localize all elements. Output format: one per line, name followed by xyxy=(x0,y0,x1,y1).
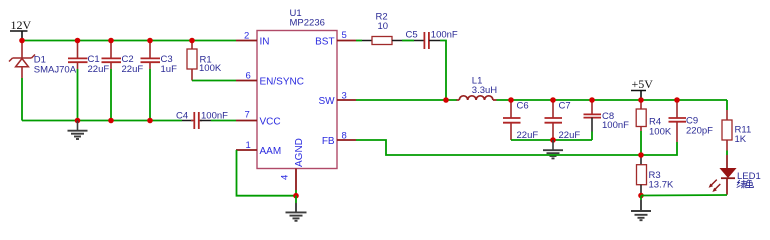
svg-text:C5: C5 xyxy=(406,30,418,41)
pin 6 EN/SYNC xyxy=(236,71,304,88)
svg-text:BST: BST xyxy=(315,36,334,47)
wire EN/SYNC xyxy=(192,80,236,82)
wire rail down to R11 xyxy=(726,100,728,110)
resistor R3 xyxy=(637,155,674,196)
svg-text:100K: 100K xyxy=(199,63,222,74)
svg-text:IN: IN xyxy=(260,36,270,47)
wire bottom-left rail xyxy=(22,120,182,122)
svg-text:VCC: VCC xyxy=(260,116,281,127)
junction AGND xyxy=(293,193,299,199)
svg-text:100nF: 100nF xyxy=(431,30,458,41)
svg-text:EN/SYNC: EN/SYNC xyxy=(260,76,304,87)
svg-text:C6: C6 xyxy=(517,101,529,112)
wire C5 down to SW xyxy=(440,41,446,101)
svg-text:C7: C7 xyxy=(559,101,571,112)
junction C7 bottom xyxy=(550,137,556,143)
svg-text:8: 8 xyxy=(342,130,347,141)
wire BST to R2 xyxy=(356,40,362,42)
svg-text:1K: 1K xyxy=(735,134,747,145)
capacitor C6 xyxy=(503,100,538,141)
wire R4 down xyxy=(640,131,642,155)
LED LED1 xyxy=(709,155,761,195)
resistor R1 xyxy=(187,41,222,81)
svg-text:10: 10 xyxy=(378,21,389,32)
power port +5V xyxy=(631,77,653,100)
svg-text:22uF: 22uF xyxy=(122,64,144,75)
capacitor C7 xyxy=(545,100,581,141)
junction FB-R4 xyxy=(638,152,644,158)
svg-text:2: 2 xyxy=(244,31,249,42)
wire output rail xyxy=(497,99,728,101)
capacitor C5 xyxy=(406,30,458,49)
wire LED bottom to R3 junction xyxy=(641,194,727,197)
op-amp U1 MP2236 IC body xyxy=(257,8,337,169)
svg-text:SMAJ70A: SMAJ70A xyxy=(34,64,77,75)
wire SW rail xyxy=(356,99,457,101)
svg-text:13.7K: 13.7K xyxy=(649,180,674,191)
svg-text:22uF: 22uF xyxy=(88,64,110,75)
svg-text:220pF: 220pF xyxy=(686,126,713,137)
junction R3 bottom xyxy=(638,193,644,199)
svg-text:7: 7 xyxy=(245,110,250,121)
pin 3 SW xyxy=(318,91,356,107)
wire C8 down xyxy=(591,132,593,141)
svg-text:1uF: 1uF xyxy=(161,64,178,75)
resistor R2 xyxy=(362,12,402,45)
svg-text:+5V: +5V xyxy=(632,77,654,91)
pin 8 FB xyxy=(322,130,356,147)
junction dots SW rail xyxy=(443,97,449,103)
svg-text:12V: 12V xyxy=(11,18,32,32)
svg-text:AAM: AAM xyxy=(260,146,282,157)
svg-text:100nF: 100nF xyxy=(602,120,629,131)
wire C3 down xyxy=(149,69,151,121)
svg-text:3.3uH: 3.3uH xyxy=(472,85,497,96)
svg-text:6: 6 xyxy=(246,71,251,82)
wire C6-C7-C8 bottom xyxy=(511,139,592,141)
pin 5 BST xyxy=(315,30,356,47)
ground left xyxy=(68,121,88,140)
wire C2 down xyxy=(110,69,112,121)
pin 4 AGND xyxy=(280,138,306,196)
svg-text:4: 4 xyxy=(280,175,291,180)
svg-text:AGND: AGND xyxy=(294,138,305,167)
svg-text:SW: SW xyxy=(318,96,335,107)
wire FB path xyxy=(356,140,641,155)
capacitor C8 xyxy=(584,100,630,132)
capacitor C1 xyxy=(68,41,109,75)
pin 7 VCC xyxy=(236,110,281,128)
wire top rail 12V xyxy=(22,40,236,42)
power port 12V xyxy=(10,18,32,41)
wire D1 anode down xyxy=(21,78,23,121)
wire FB to C9 bottom xyxy=(641,142,677,155)
svg-text:1: 1 xyxy=(246,140,251,151)
resistor R4 xyxy=(636,100,672,138)
junction dots left xyxy=(19,38,25,44)
capacitor C2 xyxy=(102,41,144,75)
pin 2 IN xyxy=(236,31,270,48)
svg-text:5: 5 xyxy=(342,30,347,41)
svg-text:C4: C4 xyxy=(176,110,188,121)
wire AAM down and to AGND xyxy=(237,150,297,196)
capacitor C4 xyxy=(176,110,228,129)
diode D1 xyxy=(9,41,77,79)
wire R11 to LED xyxy=(726,151,728,156)
svg-text:100nF: 100nF xyxy=(201,110,228,121)
capacitor C9 xyxy=(669,100,714,142)
ground AGND xyxy=(286,196,307,221)
capacitor C3 xyxy=(141,41,178,75)
svg-text:3: 3 xyxy=(342,91,347,102)
ground C7 xyxy=(543,140,563,158)
svg-text:FB: FB xyxy=(322,136,335,147)
pin 1 AAM xyxy=(236,140,281,157)
inductor L1 xyxy=(457,75,498,100)
svg-text:MP2236: MP2236 xyxy=(290,18,325,29)
resistor R11 xyxy=(722,110,751,151)
wire C1 down xyxy=(77,69,79,121)
ground R3 xyxy=(631,196,651,221)
svg-text:100K: 100K xyxy=(649,127,672,138)
wire R2 to C5 xyxy=(402,40,414,42)
